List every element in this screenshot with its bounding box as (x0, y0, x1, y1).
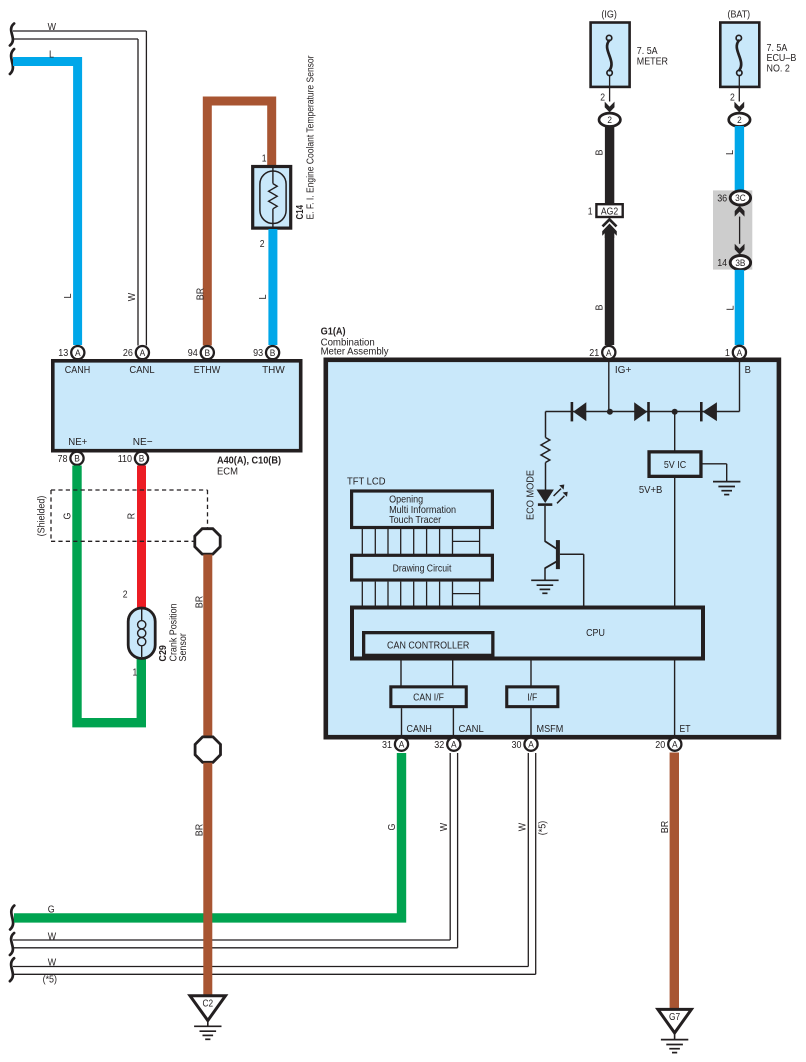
I/F box (507, 687, 558, 707)
svg-text:2: 2 (737, 114, 742, 125)
svg-text:2: 2 (123, 590, 128, 601)
svg-text:G7: G7 (669, 1012, 680, 1023)
pin 94 (B) ETHW (188, 346, 214, 359)
svg-text:R: R (126, 512, 138, 519)
svg-text:MSFM: MSFM (537, 723, 564, 735)
pin 30 (A) MSFM (512, 738, 538, 751)
wire BR (to C2 ground) (193, 763, 208, 996)
wire B (fuse to AG2) (593, 126, 609, 204)
pin 93 (B) THW (253, 346, 279, 359)
node IG+ (609, 360, 632, 412)
pin 110 (B) NE- (118, 452, 148, 465)
svg-text:14: 14 (717, 258, 727, 269)
svg-text:2: 2 (730, 93, 735, 104)
svg-text:NE+: NE+ (68, 436, 87, 448)
fuse 7.5A ECU-B NO.2 (BAT) (720, 9, 796, 127)
junction dot IG+ (607, 409, 613, 415)
svg-text:B: B (745, 364, 751, 376)
wire W horizontal (*5) (to meter pin 30 MSFM) (10, 753, 549, 985)
svg-text:B: B (139, 453, 145, 464)
CAN CONTROLLER box (364, 633, 493, 656)
svg-text:ET: ET (680, 723, 691, 735)
svg-text:A: A (451, 739, 457, 750)
svg-text:CAN CONTROLLER: CAN CONTROLLER (387, 639, 470, 651)
ground G7 (658, 1009, 692, 1052)
svg-text:Sensor: Sensor (177, 633, 189, 662)
svg-text:Meter Assembly: Meter Assembly (321, 346, 390, 358)
svg-text:110: 110 (118, 454, 133, 465)
bus hatch 1 (362, 529, 479, 554)
svg-text:(*5): (*5) (537, 821, 549, 835)
svg-text:L: L (49, 48, 54, 60)
pin 26 (A) CANL (123, 346, 149, 359)
wire G (NE+ to C29 pin 1) (61, 466, 141, 723)
svg-text:A: A (399, 739, 405, 750)
svg-text:W: W (48, 956, 56, 968)
svg-text:AG2: AG2 (601, 207, 618, 218)
svg-text:78: 78 (58, 454, 68, 465)
wire W (CANL to ECM pin 26) (10, 21, 147, 346)
wire L (to ECM pin 13 CANH) (10, 48, 78, 345)
node CANL (453, 708, 483, 737)
svg-text:B: B (74, 453, 80, 464)
transistor Q (ECO MODE driver) (545, 506, 584, 606)
svg-text:CANL: CANL (459, 723, 484, 735)
svg-text:L: L (257, 294, 269, 299)
svg-text:B: B (593, 150, 605, 156)
svg-text:31: 31 (382, 740, 392, 751)
svg-text:I/F: I/F (527, 693, 537, 704)
svg-text:93: 93 (253, 348, 263, 359)
pin 32 (A) CANL (434, 738, 460, 751)
svg-text:(*5): (*5) (43, 973, 57, 985)
svg-text:W: W (516, 823, 528, 831)
svg-text:2: 2 (600, 93, 605, 104)
bus hatch 2 (362, 582, 479, 606)
svg-text:(BAT): (BAT) (728, 9, 751, 21)
svg-text:BR: BR (193, 823, 205, 836)
shield junction octagon (top) (195, 529, 220, 554)
ground (5V IC) (701, 464, 740, 495)
svg-text:21: 21 (589, 348, 599, 359)
wire CPU to I/F (530, 661, 532, 687)
TFT LCD Opening/Multi Information/Touch Tracer box (352, 491, 493, 528)
svg-text:A: A (672, 739, 678, 750)
svg-text:A: A (528, 739, 534, 750)
wire W horizontal (to meter pin 32 CANL) (10, 753, 458, 955)
svg-text:32: 32 (434, 740, 444, 751)
svg-text:A: A (75, 347, 81, 358)
svg-text:1: 1 (725, 348, 730, 359)
svg-text:B: B (270, 347, 276, 358)
wire L (fuse to 3C) (724, 126, 739, 191)
svg-text:Touch Tracer: Touch Tracer (389, 515, 442, 526)
diode bus wire (546, 411, 740, 413)
junction octagon (bottom) (195, 737, 220, 762)
svg-text:W: W (48, 21, 56, 33)
svg-text:13: 13 (58, 348, 68, 359)
node B (740, 360, 751, 412)
wire R (NE- to C29 pin 2) (126, 466, 142, 610)
pin 1 (A) B (725, 346, 746, 359)
wire L (3B to meter pin 1) (725, 270, 740, 345)
Drawing Circuit box (352, 555, 493, 580)
svg-text:1: 1 (262, 154, 267, 165)
svg-text:METER: METER (637, 55, 669, 67)
svg-text:BR: BR (659, 820, 671, 833)
5V IC (649, 412, 701, 477)
LED ECO MODE (537, 485, 568, 505)
diode D3 (701, 402, 717, 421)
wire G horizontal (to meter pin 31 CANH) (10, 753, 401, 930)
svg-text:BR: BR (195, 287, 207, 300)
svg-text:THW: THW (262, 364, 285, 376)
svg-text:36: 36 (717, 194, 727, 205)
pin 21 (A) IG+ (589, 346, 615, 359)
ECM block A40(A), C10(B) (53, 361, 301, 478)
svg-text:Drawing Circuit: Drawing Circuit (393, 564, 452, 575)
pin 78 (B) NE+ (58, 452, 84, 465)
svg-text:W: W (126, 293, 138, 301)
svg-text:1: 1 (588, 207, 593, 218)
svg-text:94: 94 (188, 348, 198, 359)
svg-text:E. F. I. Engine Coolant Tempe: E. F. I. Engine Coolant Temperature Sens… (305, 55, 317, 219)
ground C2 (190, 996, 226, 1040)
svg-text:5V IC: 5V IC (664, 459, 687, 471)
connector AG2 pin 1 (588, 204, 623, 238)
G1(A) Combination Meter Assembly box (321, 326, 779, 738)
CPU box (352, 608, 703, 659)
resistor (ECO MODE branch) (524, 412, 549, 521)
svg-text:3C: 3C (735, 192, 746, 203)
svg-text:ETHW: ETHW (194, 364, 221, 376)
svg-text:IG+: IG+ (615, 364, 632, 376)
svg-text:B: B (594, 305, 606, 311)
svg-text:A: A (737, 347, 743, 358)
svg-text:2: 2 (260, 239, 265, 250)
svg-text:20: 20 (655, 740, 665, 751)
svg-text:CAN I/F: CAN I/F (413, 693, 444, 704)
node CANH (402, 708, 432, 737)
svg-text:NE−: NE− (133, 436, 153, 448)
node 5V+B (639, 478, 675, 606)
svg-text:L: L (62, 293, 74, 298)
node MSFM (531, 708, 563, 737)
svg-text:L: L (724, 150, 736, 155)
svg-text:TFT LCD: TFT LCD (347, 476, 386, 488)
diode D1 (572, 402, 586, 421)
svg-text:NO. 2: NO. 2 (767, 62, 790, 74)
svg-text:G: G (48, 903, 55, 915)
svg-text:26: 26 (123, 348, 133, 359)
shield (Shielded) dashed box (36, 490, 208, 541)
svg-text:B: B (205, 347, 211, 358)
wire CAN CONTROLLER to CAN I/F (401, 657, 453, 686)
svg-text:CPU: CPU (586, 627, 605, 639)
svg-text:G: G (61, 513, 73, 520)
junction block 3C/3B (713, 190, 752, 269)
svg-text:L: L (725, 305, 737, 310)
svg-text:1: 1 (133, 667, 138, 678)
svg-text:C2: C2 (203, 999, 214, 1010)
pin 31 (A) CANH (382, 738, 408, 751)
svg-text:2: 2 (607, 114, 612, 125)
svg-text:A: A (606, 347, 612, 358)
svg-text:30: 30 (512, 740, 522, 751)
C14 E.F.I. Engine Coolant Temperature Sensor (253, 55, 317, 250)
pin 13 (A) CANH (58, 346, 84, 359)
svg-text:A: A (140, 347, 146, 358)
svg-text:G: G (386, 824, 398, 831)
node ET (675, 661, 691, 738)
pin 20 (A) ET (655, 738, 681, 751)
svg-text:3B: 3B (735, 257, 745, 268)
svg-text:(IG): (IG) (601, 9, 616, 21)
svg-text:W: W (438, 823, 450, 831)
CAN I/F box (391, 687, 466, 707)
svg-text:CANH: CANH (65, 364, 90, 376)
junction dot 5V+B (672, 409, 678, 415)
wire L (THW: C14 pin 2 down to ECM pin 93) (257, 229, 273, 345)
svg-text:BR: BR (193, 595, 205, 608)
wire B (AG2 to meter pin 21) (594, 234, 610, 345)
wire BR (ETHW: ECM pin 94 up and over to C14 pin 1) (195, 101, 272, 346)
svg-text:W: W (48, 930, 56, 942)
svg-text:ECM: ECM (217, 466, 238, 478)
C29 Crank Position Sensor (123, 590, 189, 679)
diode D2 (634, 402, 648, 421)
svg-text:ECO MODE: ECO MODE (524, 470, 536, 520)
svg-text:5V+B: 5V+B (639, 484, 663, 496)
svg-text:CANH: CANH (407, 723, 432, 735)
wire BR shield drain (octagon to junction octagon 2) (193, 555, 208, 737)
wire BR (ET to G7 ground) (659, 753, 674, 1010)
fuse 7.5A METER (IG) (591, 9, 669, 127)
svg-text:CANL: CANL (129, 364, 154, 376)
ground (transistor emitter) (531, 580, 558, 593)
svg-text:(Shielded): (Shielded) (36, 496, 48, 537)
